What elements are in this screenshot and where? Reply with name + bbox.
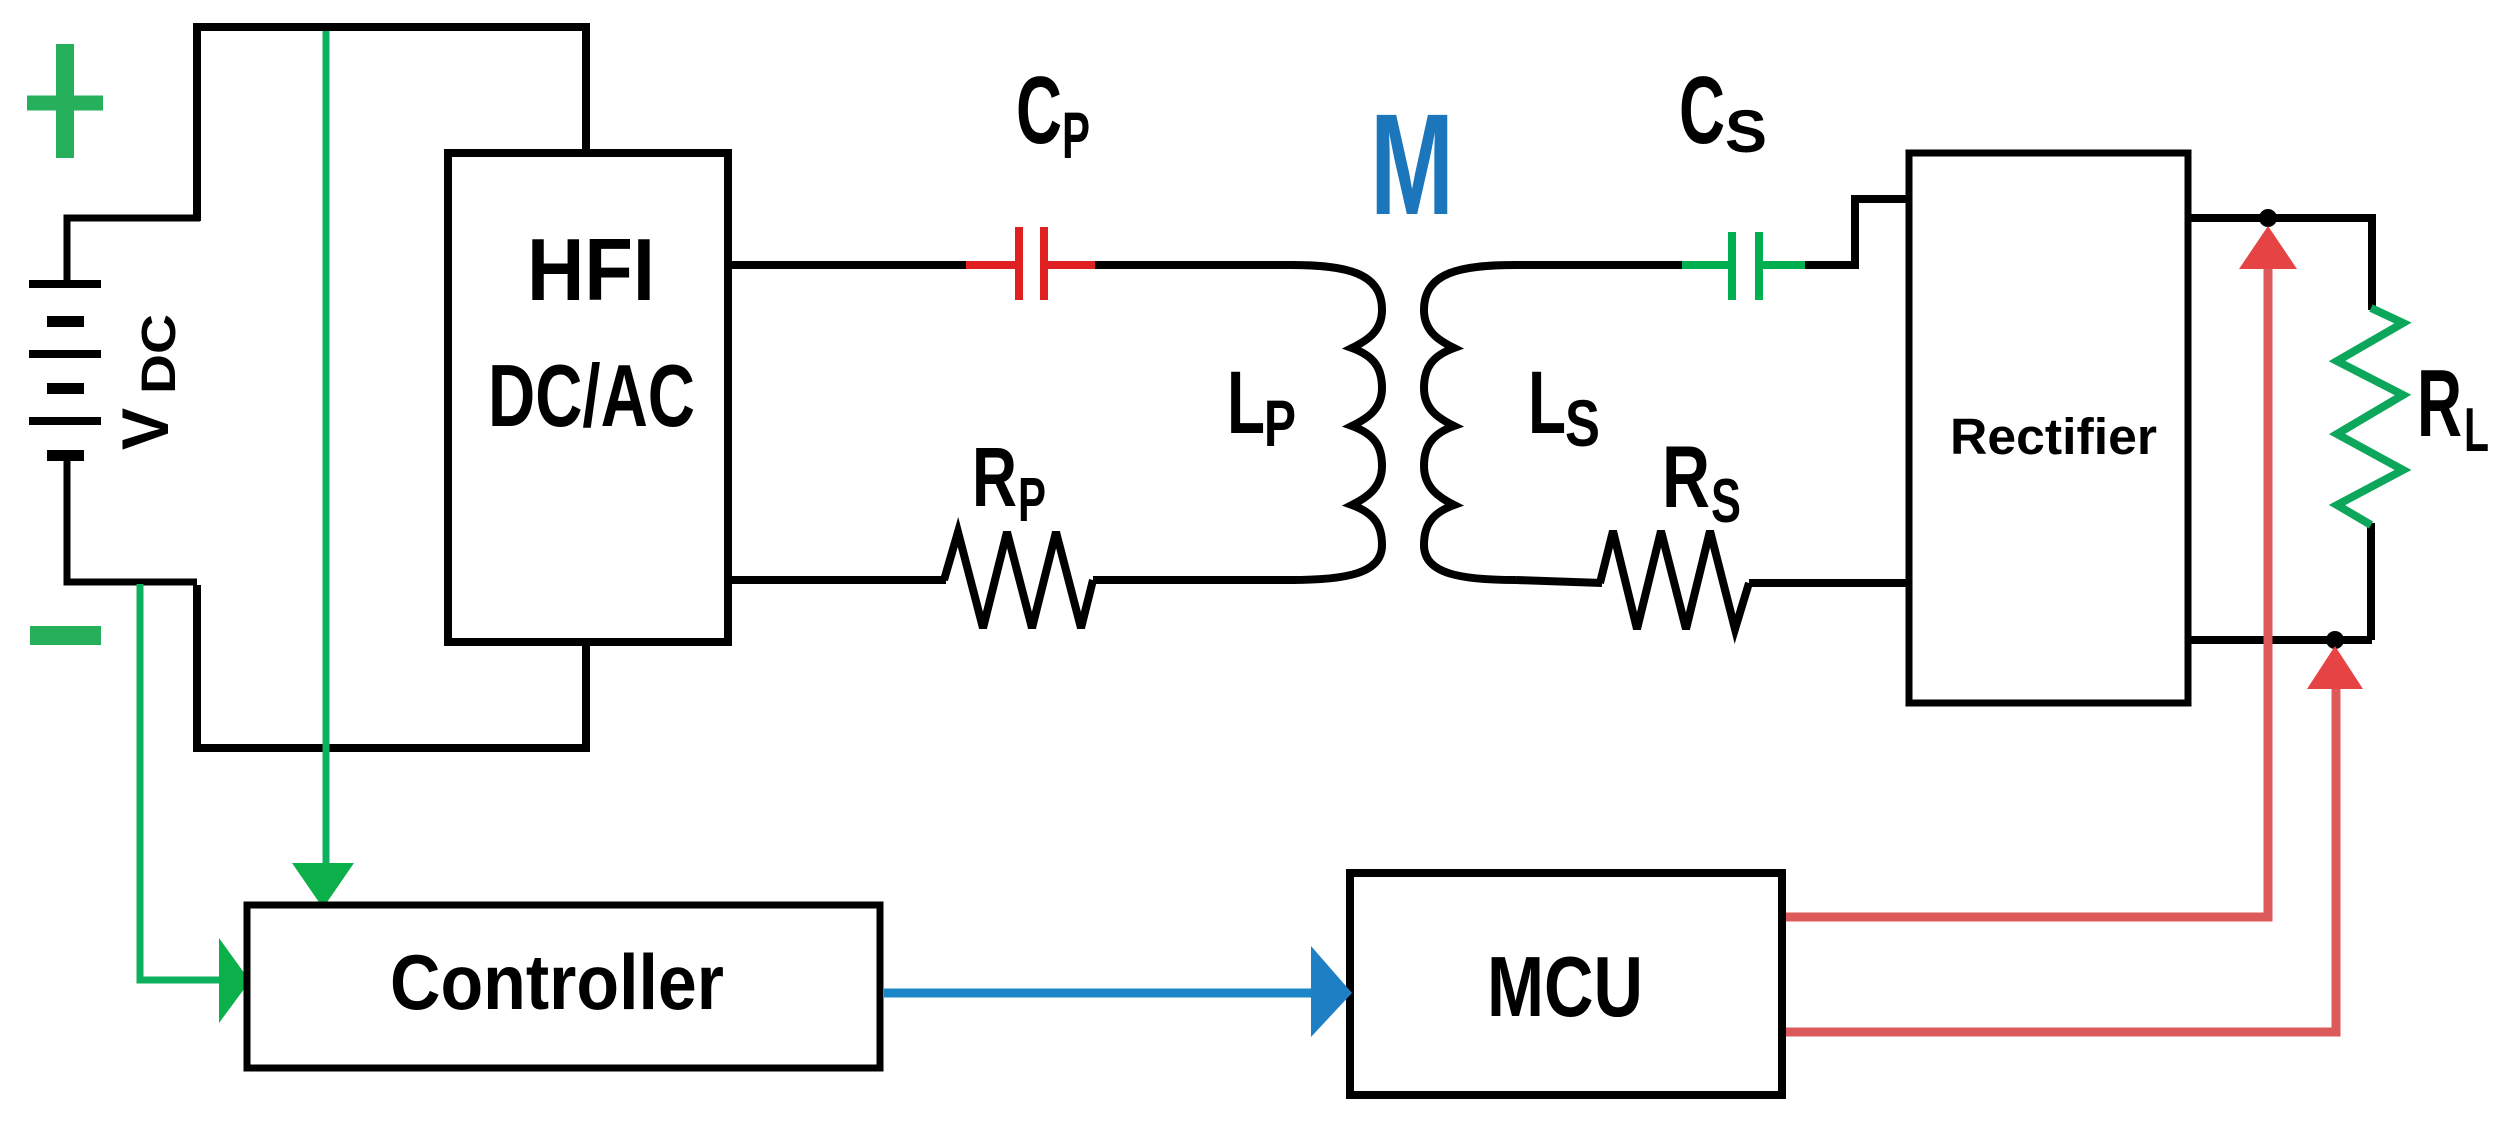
node B: rectifier negative output	[2326, 631, 2344, 649]
capacitor CP plates	[1015, 227, 1023, 300]
MCU box	[1350, 873, 1782, 1095]
green arrowhead down into Controller	[292, 863, 354, 908]
wire: CP to LP top	[1095, 261, 1295, 269]
wire: battery negative lead	[67, 455, 197, 582]
red arrowhead up at node B	[2307, 646, 2363, 689]
svg-text:L: L	[1528, 352, 1566, 452]
plus sign	[56, 44, 74, 158]
battery VDC plate short 2	[47, 383, 84, 394]
wire: HFI output bottom	[728, 576, 946, 584]
capacitor CP red leads	[966, 261, 1097, 269]
wire: LS bottom to RS	[1516, 580, 1602, 583]
svg-text:S: S	[1725, 98, 1767, 165]
capacitor CS plates	[1728, 232, 1736, 300]
blue arrowhead into MCU	[1311, 946, 1352, 1037]
svg-text:MCU: MCU	[1487, 940, 1643, 1035]
resistor RP	[944, 532, 1093, 628]
svg-text:DC/AC: DC/AC	[488, 346, 695, 445]
battery VDC plate short 3	[47, 450, 84, 461]
svg-text:P: P	[1264, 386, 1296, 460]
battery VDC plate long 1	[29, 280, 101, 288]
svg-text:C: C	[1679, 57, 1725, 164]
resistor RS	[1600, 531, 1749, 629]
wire: CS to Rectifier with step up	[1805, 199, 1909, 265]
svg-text:L: L	[1227, 352, 1265, 452]
inductor LP primary coil	[1290, 265, 1382, 580]
svg-text:DC: DC	[133, 314, 186, 394]
wire: Rectifier output top	[2188, 218, 2372, 310]
wire: Rectifier output bottom	[2188, 636, 2372, 644]
HFI DC/AC box	[448, 153, 728, 642]
svg-text:P: P	[1062, 98, 1090, 172]
wire: battery positive lead	[67, 218, 200, 284]
wire: HFI output top	[728, 261, 968, 269]
battery VDC plate long 3	[29, 417, 101, 425]
svg-text:Rectifier: Rectifier	[1950, 408, 2157, 465]
svg-text:S: S	[1711, 467, 1741, 536]
svg-text:C: C	[1016, 57, 1062, 164]
Controller box	[247, 905, 880, 1068]
wire: RP to LP bottom	[1093, 576, 1295, 584]
svg-text:HFI: HFI	[527, 220, 655, 319]
green arrowhead right into Controller	[219, 938, 250, 1023]
wire: DC link loop top edge	[193, 27, 586, 748]
battery VDC plate short 1	[47, 316, 84, 327]
svg-text:R: R	[1662, 427, 1710, 526]
green sense line from DC link to Controller	[323, 31, 330, 884]
svg-text:L: L	[2464, 396, 2489, 465]
resistor RL load	[2337, 308, 2403, 525]
wire: LS top to CS	[1512, 261, 1684, 269]
capacitor CS green leads	[1682, 261, 1807, 269]
Rectifier box	[1909, 153, 2188, 703]
svg-text:Controller: Controller	[390, 938, 724, 1026]
svg-text:V: V	[108, 408, 182, 450]
green sense line from battery negative to Controller	[140, 584, 224, 980]
red arrowhead up at node A	[2239, 226, 2297, 269]
red feedback line 2	[1786, 670, 2336, 1032]
svg-text:S: S	[1565, 386, 1600, 460]
svg-text:M: M	[1370, 84, 1454, 245]
wire: RL bottom lead	[2367, 523, 2375, 640]
inductor LS secondary coil	[1424, 265, 1516, 580]
svg-text:P: P	[1018, 466, 1046, 535]
node A: rectifier positive output	[2259, 209, 2277, 227]
battery VDC plate long 2	[29, 350, 101, 358]
svg-text:R: R	[2417, 350, 2462, 457]
wire: RS to Rectifier	[1749, 579, 1909, 587]
svg-text:R: R	[972, 430, 1017, 524]
red feedback line 1	[1786, 250, 2268, 917]
minus sign	[30, 626, 101, 645]
blue control line Controller to MCU	[884, 989, 1315, 998]
